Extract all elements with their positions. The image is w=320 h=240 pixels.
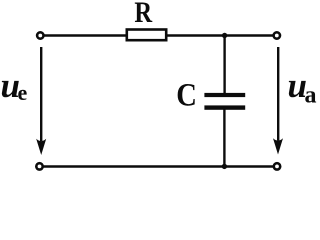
node junction bottom: [222, 164, 227, 169]
svg-text:e: e: [18, 80, 28, 105]
svg-text:R: R: [134, 0, 153, 28]
resistor R: [127, 30, 166, 41]
wire bottom: [43, 165, 273, 167]
arrow u_a head: [273, 138, 283, 154]
terminal top right: [274, 32, 280, 38]
arrow u_e head: [36, 139, 46, 155]
capacitor C bottom plate: [204, 105, 245, 109]
capacitor C top plate: [204, 93, 245, 97]
terminal bottom right: [274, 163, 280, 169]
svg-text:C: C: [176, 77, 197, 113]
wire capacitor bottom leg: [223, 109, 225, 167]
node junction top: [222, 33, 227, 38]
arrow u_a shaft: [277, 47, 279, 141]
arrow u_e shaft: [40, 47, 42, 141]
terminal bottom left: [36, 163, 42, 169]
svg-text:a: a: [305, 82, 317, 108]
terminal top left: [37, 32, 43, 38]
wire capacitor top leg: [223, 36, 225, 94]
wire top right segment: [166, 34, 273, 36]
wire top left segment: [43, 34, 127, 36]
